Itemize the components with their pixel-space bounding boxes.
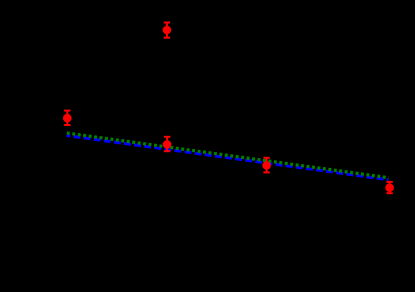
data point 3 marker	[163, 140, 172, 149]
data point 1 marker	[63, 114, 72, 123]
green dotted fit line	[67, 133, 389, 178]
data point 1 error bar	[64, 111, 70, 125]
data point 5 marker	[385, 183, 394, 192]
data point 3 error bar	[164, 137, 170, 151]
data point 4 marker	[262, 161, 271, 170]
data point 2 error bar	[164, 23, 170, 38]
data point 4 error bar	[263, 158, 269, 173]
data point 5 error bar	[386, 182, 392, 193]
data point 2 marker	[163, 26, 172, 35]
blue dashed fit line	[67, 136, 389, 180]
